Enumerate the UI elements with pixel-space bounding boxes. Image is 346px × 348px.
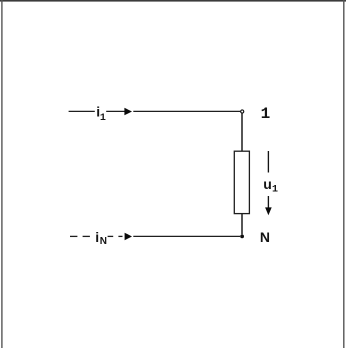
svg-text:1: 1 bbox=[261, 105, 271, 123]
svg-text:i: i bbox=[95, 229, 99, 245]
svg-text:1: 1 bbox=[100, 113, 106, 124]
svg-text:N: N bbox=[100, 236, 107, 247]
svg-text:1: 1 bbox=[272, 184, 278, 195]
svg-text:N: N bbox=[260, 229, 270, 245]
svg-text:u: u bbox=[263, 176, 272, 192]
